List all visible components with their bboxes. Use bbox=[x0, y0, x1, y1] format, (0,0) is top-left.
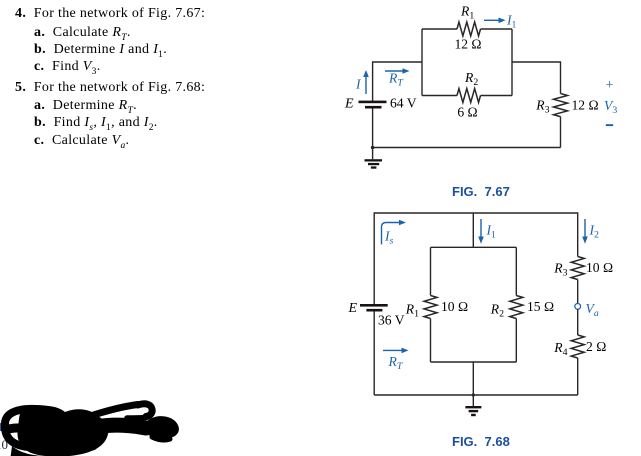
wire: inner box right edge top lead bbox=[515, 247, 517, 295]
svg-text:10 Ω: 10 Ω bbox=[441, 299, 468, 314]
problem text line 3 bbox=[34, 43, 167, 57]
label 12 ohm (R3) bbox=[572, 98, 599, 113]
label R2 (Fig 7.68) bbox=[490, 302, 504, 320]
label 10 ohm (R1) bbox=[441, 299, 468, 314]
problem text line 8 bbox=[34, 134, 129, 148]
wire: middle drop from top wire to inner box bbox=[472, 213, 474, 247]
wire: battery bottom lead (Fig 7.68) bbox=[373, 312, 375, 396]
label 15 ohm (R2) bbox=[527, 299, 554, 314]
label 36 V bbox=[378, 313, 405, 328]
resistor R1 zigzag bbox=[457, 22, 481, 36]
label 2 ohm (R4) bbox=[586, 339, 606, 354]
problem text line 6 bbox=[34, 99, 137, 113]
wire: stem from inner box bottom to ground bus bbox=[472, 362, 474, 395]
svg-text:I1: I1 bbox=[506, 13, 517, 31]
label E (Fig 7.67) bbox=[344, 97, 354, 112]
wire: inner box left edge top lead bbox=[430, 247, 432, 295]
label 12 ohm (R1) bbox=[454, 37, 481, 52]
resistor R3 zigzag (Fig 7.68) bbox=[571, 257, 584, 280]
svg-text:RT: RT bbox=[388, 71, 404, 89]
resistor R4 zigzag bbox=[571, 335, 584, 358]
svg-text:Is: Is bbox=[384, 229, 394, 247]
svg-text:FIG. 7.67: FIG. 7.67 bbox=[452, 184, 510, 199]
wire: bottom return wire bbox=[373, 147, 561, 149]
label R1 bbox=[460, 4, 474, 22]
svg-text:I1: I1 bbox=[486, 223, 497, 241]
wire: box bottom edge left lead bbox=[422, 95, 457, 97]
wire: inner box left edge bottom lead bbox=[430, 319, 432, 363]
arrow RT (Fig 7.67) bbox=[385, 68, 410, 74]
label plus sign bbox=[606, 78, 614, 93]
node: bottom bus junction dot bbox=[472, 393, 475, 396]
label minus sign bbox=[606, 124, 613, 126]
svg-text:12 Ω: 12 Ω bbox=[454, 37, 481, 52]
label R2 bbox=[464, 70, 478, 88]
svg-text:R4: R4 bbox=[553, 340, 567, 358]
problem text line 2 bbox=[34, 26, 131, 40]
problem text line 5 bbox=[15, 81, 205, 95]
text fragment remnants at left edge bbox=[0, 423, 8, 452]
label Va bbox=[586, 301, 599, 319]
label I1 bbox=[506, 13, 517, 31]
resistor R2 zigzag bbox=[457, 89, 481, 103]
label Is bbox=[384, 229, 394, 247]
svg-text:6 Ω: 6 Ω bbox=[457, 105, 477, 120]
wire: battery bottom lead bbox=[372, 108, 374, 148]
ground (Fig 7.67) bbox=[365, 148, 383, 169]
ground (Fig 7.68) bbox=[465, 395, 481, 416]
label I bbox=[355, 77, 362, 92]
arrow I2 bbox=[582, 219, 588, 244]
wire: inner box top edge bbox=[431, 246, 517, 248]
svg-text:R1: R1 bbox=[405, 302, 419, 320]
svg-text:R1: R1 bbox=[460, 4, 474, 22]
resistor R2 zigzag (Fig 7.68) bbox=[510, 296, 523, 319]
scribble blob bbox=[5, 404, 179, 456]
label R1 (Fig 7.68) bbox=[405, 302, 419, 320]
arrow I1 bbox=[484, 18, 506, 24]
svg-text:15 Ω: 15 Ω bbox=[527, 299, 554, 314]
battery E 64V plates bbox=[359, 101, 387, 109]
label 10 ohm (R3) bbox=[586, 260, 613, 275]
svg-text:R3: R3 bbox=[553, 261, 567, 279]
caption FIG. 7.67 bbox=[452, 184, 510, 199]
wire: box bottom edge right lead bbox=[481, 95, 513, 97]
arrow RT (Fig 7.68) bbox=[383, 348, 409, 354]
wire: box top edge left lead bbox=[422, 28, 457, 30]
svg-text:R2: R2 bbox=[464, 70, 478, 88]
svg-text:36 V: 36 V bbox=[378, 313, 405, 328]
resistor R1 zigzag (Fig 7.68) bbox=[424, 296, 437, 319]
svg-text:FIG. 7.68: FIG. 7.68 bbox=[452, 434, 510, 449]
node: ground junction dot bbox=[371, 146, 375, 150]
label 6 ohm (R2) bbox=[457, 105, 477, 120]
svg-text:2 Ω: 2 Ω bbox=[586, 339, 606, 354]
label V3 bbox=[604, 98, 617, 116]
svg-text:10 Ω: 10 Ω bbox=[586, 260, 613, 275]
wire: battery top lead + top-left horizontal bbox=[373, 62, 422, 101]
wire: R3 bottom lead bbox=[560, 117, 562, 148]
wire: right horizontal to R3 branch bbox=[512, 62, 561, 94]
wire: outer loop top + left side (battery top lead) bbox=[374, 213, 578, 304]
caption FIG. 7.68 bbox=[452, 434, 510, 449]
wire: bottom bus bbox=[374, 394, 578, 396]
label I1 (Fig 7.68) bbox=[486, 223, 497, 241]
label RT (Fig 7.67) bbox=[388, 71, 404, 89]
label E (Fig 7.68) bbox=[347, 301, 357, 316]
svg-text:E: E bbox=[344, 97, 354, 112]
svg-text:64 V: 64 V bbox=[390, 96, 417, 111]
label 64 V bbox=[390, 96, 417, 111]
svg-text:I2: I2 bbox=[589, 223, 600, 241]
svg-text:I: I bbox=[355, 77, 362, 92]
svg-text:+: + bbox=[606, 78, 614, 93]
svg-text:Va: Va bbox=[586, 301, 599, 319]
wire: R3 to node Va bbox=[577, 280, 579, 304]
wire: parallel box left edge bbox=[421, 29, 423, 96]
wire: parallel box right edge bbox=[511, 29, 513, 96]
battery E 36V plates bbox=[360, 304, 388, 312]
svg-text:12 Ω: 12 Ω bbox=[572, 98, 599, 113]
node Va open terminal bbox=[575, 304, 581, 310]
label R4 bbox=[553, 340, 567, 358]
svg-text:R2: R2 bbox=[490, 302, 504, 320]
label RT (Fig 7.68) bbox=[388, 354, 404, 372]
problem text line 7 bbox=[34, 116, 158, 130]
wire: inner box bottom edge bbox=[431, 361, 517, 363]
label I2 bbox=[589, 223, 600, 241]
svg-text:V3: V3 bbox=[604, 98, 617, 116]
arrow Is bbox=[382, 220, 407, 245]
svg-text:R3: R3 bbox=[535, 98, 549, 116]
wire: node Va to R4 bbox=[577, 309, 579, 335]
svg-text:E: E bbox=[347, 301, 357, 316]
svg-text:RT: RT bbox=[388, 354, 404, 372]
problem text line 1 bbox=[15, 7, 205, 21]
resistor R3 zigzag bbox=[554, 94, 568, 117]
label R3 bbox=[535, 98, 549, 116]
wire: inner box right edge bottom lead bbox=[515, 319, 517, 363]
problem text line 4 bbox=[34, 60, 101, 74]
arrow I1 (Fig 7.68) bbox=[478, 219, 484, 244]
wire: box top edge right lead bbox=[481, 28, 513, 30]
arrow I (battery current) bbox=[363, 70, 369, 94]
label R3 (Fig 7.68) bbox=[553, 261, 567, 279]
wire: R4 bottom lead bbox=[577, 358, 579, 395]
